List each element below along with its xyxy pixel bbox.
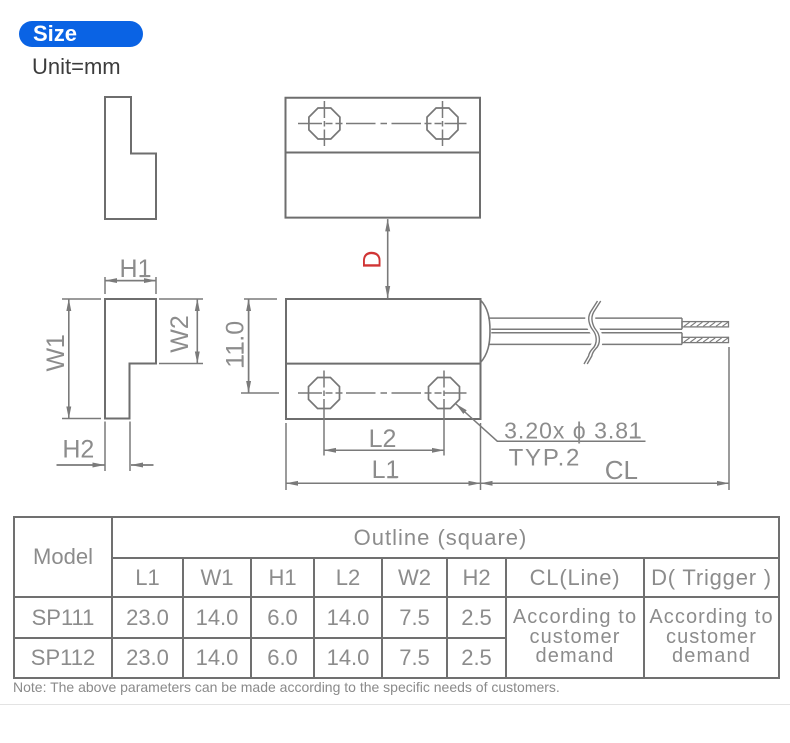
svg-text:W2: W2 <box>166 315 194 353</box>
svg-text:W1: W1 <box>42 334 70 372</box>
svg-text:11.0: 11.0 <box>222 321 250 368</box>
svg-text:L2: L2 <box>369 425 397 453</box>
svg-text:3.20x ϕ 3.81: 3.20x ϕ 3.81 <box>504 417 643 443</box>
svg-text:D: D <box>358 251 386 269</box>
svg-text:L1: L1 <box>372 456 400 484</box>
svg-text:H1: H1 <box>120 255 152 283</box>
svg-text:H2: H2 <box>62 435 94 463</box>
svg-text:CL: CL <box>605 455 638 485</box>
svg-text:TYP.2: TYP.2 <box>509 445 582 472</box>
